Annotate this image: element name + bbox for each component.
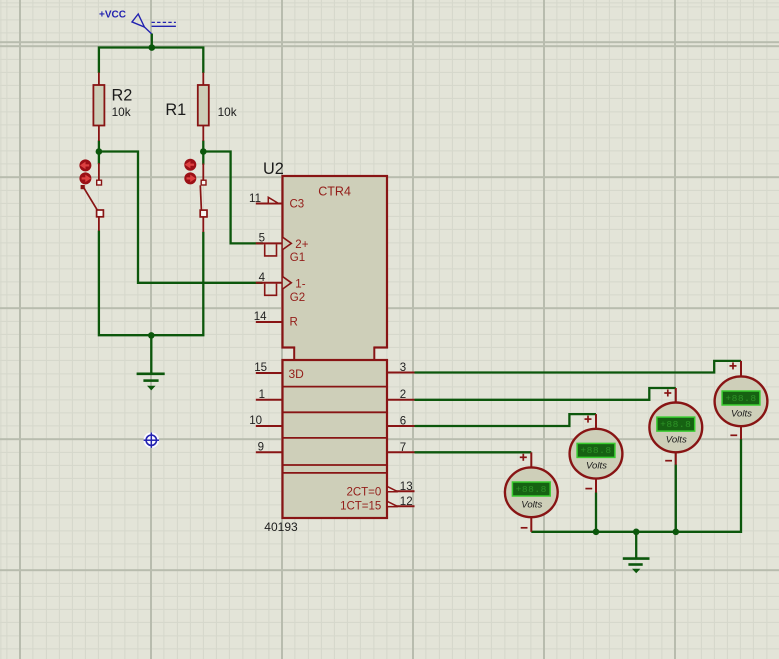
- svg-text:Volts: Volts: [731, 408, 752, 419]
- svg-text:G2: G2: [290, 292, 305, 304]
- svg-text:R2: R2: [112, 87, 133, 105]
- svg-text:10k: 10k: [218, 105, 237, 119]
- svg-text:13: 13: [400, 481, 413, 493]
- svg-text:4: 4: [259, 272, 266, 284]
- svg-text:9: 9: [258, 442, 264, 454]
- svg-text:12: 12: [400, 496, 413, 508]
- svg-text:Volts: Volts: [586, 461, 607, 472]
- svg-text:+88.8: +88.8: [660, 419, 691, 430]
- svg-text:10: 10: [249, 415, 262, 427]
- svg-text:10k: 10k: [112, 105, 131, 119]
- svg-text:1CT=15: 1CT=15: [340, 500, 381, 512]
- svg-text:Volts: Volts: [666, 434, 687, 445]
- svg-text:2CT=0: 2CT=0: [346, 486, 381, 498]
- svg-text:3D: 3D: [289, 367, 305, 381]
- svg-text:1-: 1-: [295, 279, 305, 291]
- svg-text:CTR4: CTR4: [318, 184, 351, 198]
- svg-text:1: 1: [259, 389, 265, 401]
- svg-text:11: 11: [249, 193, 261, 205]
- svg-text:Volts: Volts: [521, 499, 542, 510]
- svg-text:C3: C3: [290, 199, 305, 211]
- svg-text:U2: U2: [263, 160, 284, 178]
- svg-text:5: 5: [259, 233, 265, 245]
- svg-text:R1: R1: [165, 101, 186, 119]
- svg-text:2: 2: [400, 389, 406, 401]
- svg-text:+88.8: +88.8: [580, 445, 611, 456]
- svg-text:7: 7: [400, 442, 406, 454]
- svg-text:15: 15: [254, 362, 267, 374]
- svg-text:14: 14: [254, 311, 267, 323]
- svg-text:R: R: [290, 317, 298, 329]
- svg-text:+88.8: +88.8: [516, 484, 547, 495]
- svg-text:40193: 40193: [264, 520, 298, 534]
- svg-text:+88.8: +88.8: [725, 393, 756, 404]
- svg-text:G1: G1: [290, 252, 305, 264]
- svg-text:+VCC: +VCC: [99, 10, 126, 21]
- svg-text:2+: 2+: [295, 239, 308, 251]
- svg-text:3: 3: [400, 362, 406, 374]
- svg-text:6: 6: [400, 415, 406, 427]
